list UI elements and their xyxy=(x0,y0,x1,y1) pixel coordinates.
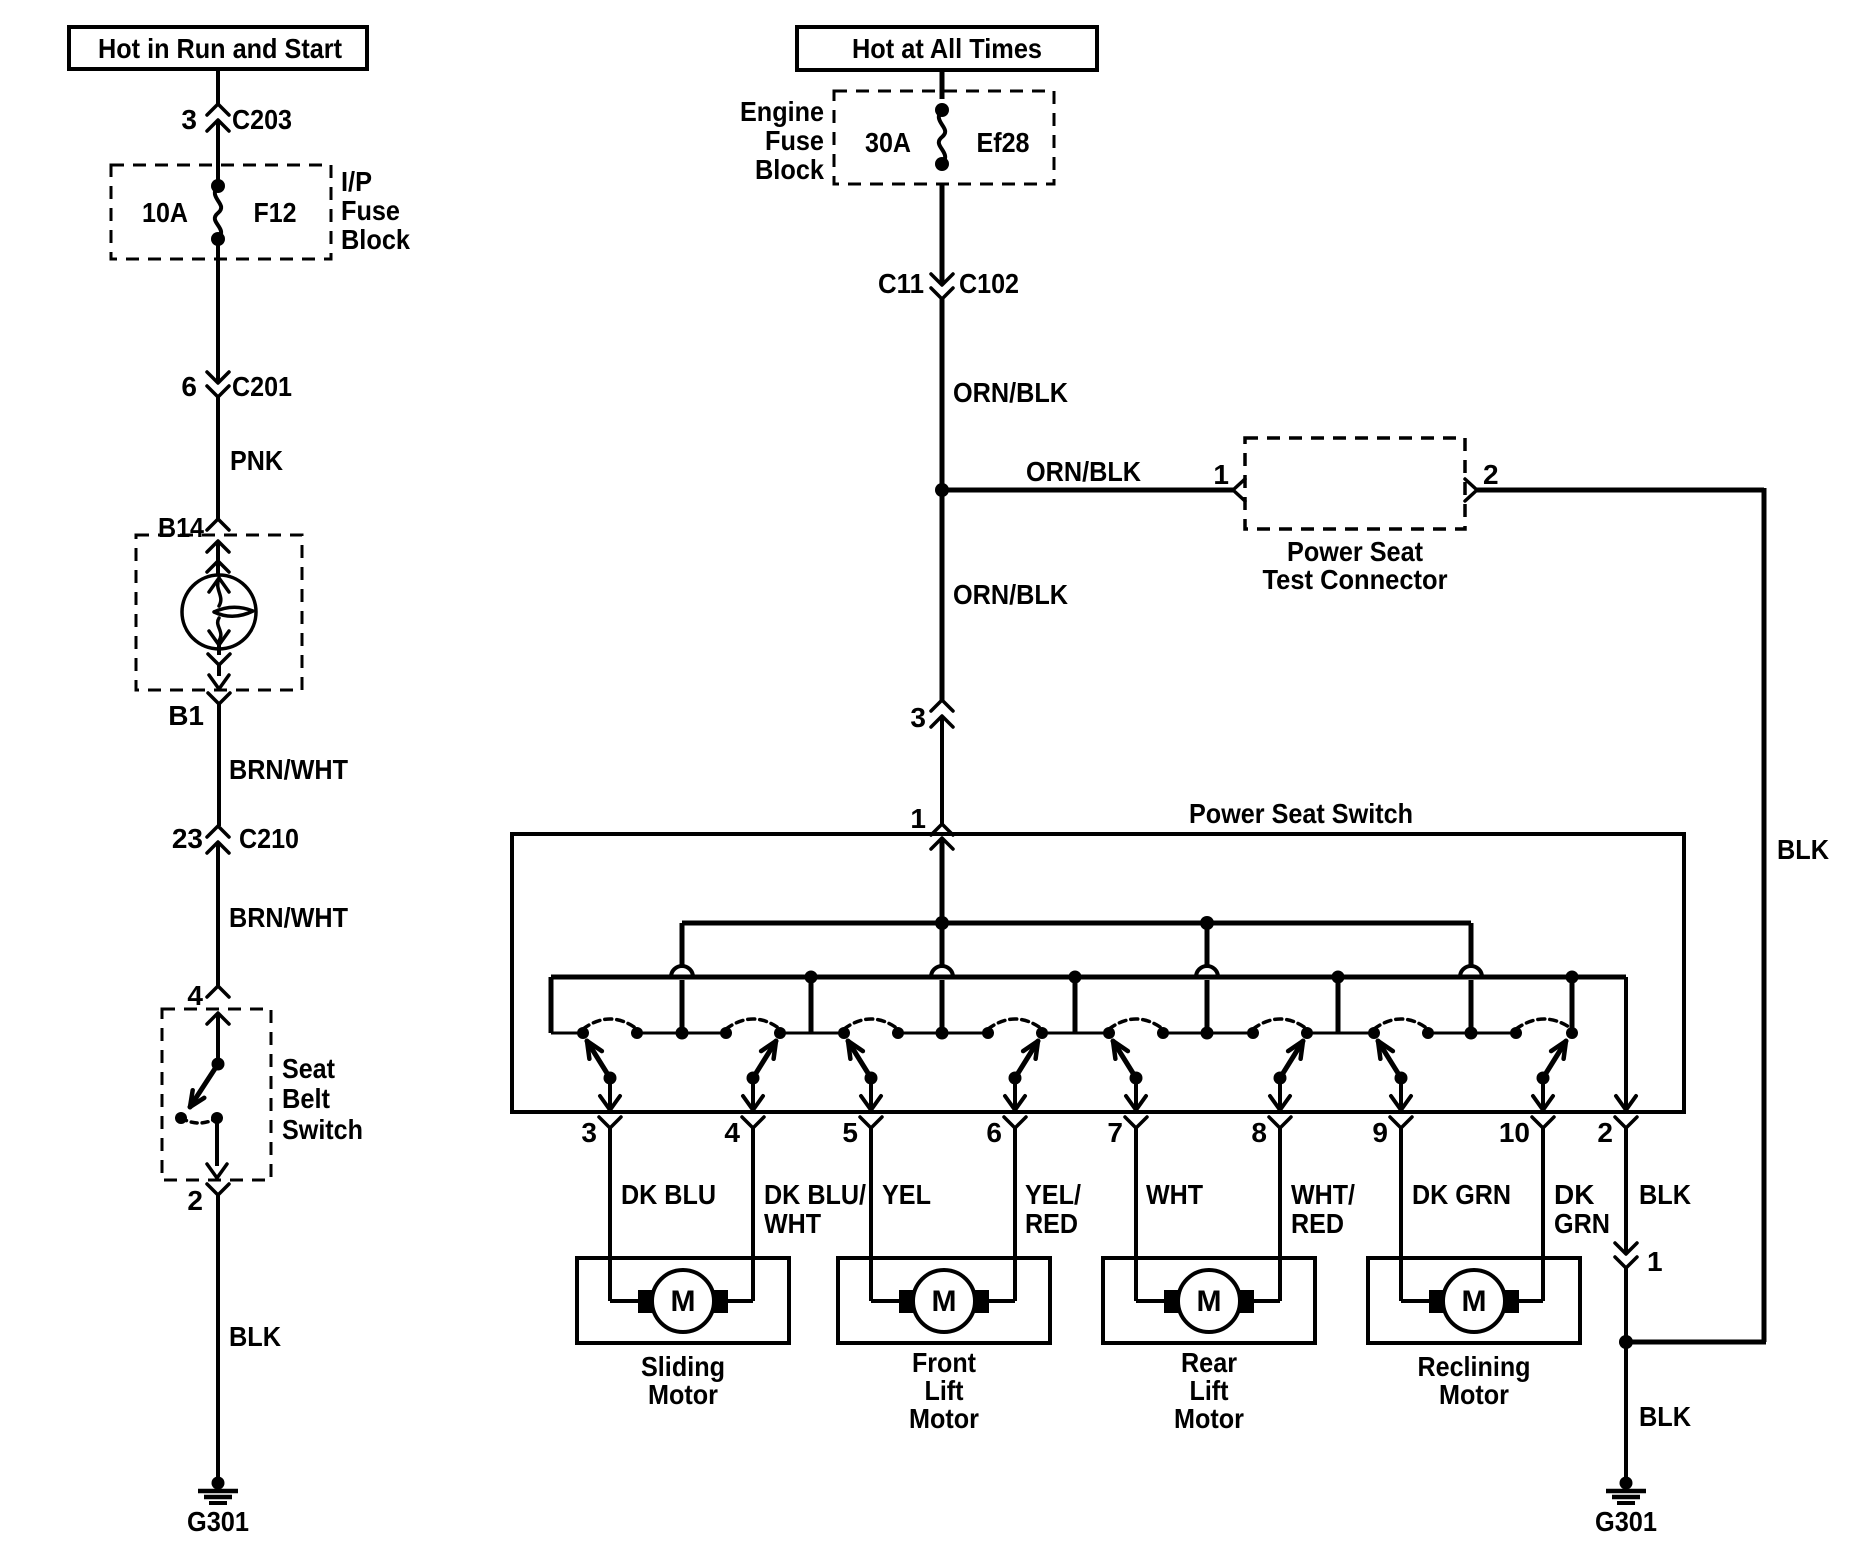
svg-text:WHT/: WHT/ xyxy=(1291,1179,1355,1210)
svg-text:M: M xyxy=(1197,1285,1222,1318)
svg-text:3: 3 xyxy=(581,1117,597,1148)
svg-text:PNK: PNK xyxy=(230,445,283,476)
svg-text:1: 1 xyxy=(1647,1246,1663,1277)
svg-text:3: 3 xyxy=(910,702,926,733)
svg-text:Seat: Seat xyxy=(282,1053,335,1084)
svg-text:Motor: Motor xyxy=(648,1379,718,1410)
svg-text:ORN/BLK: ORN/BLK xyxy=(953,579,1068,610)
svg-text:Lift: Lift xyxy=(925,1375,964,1406)
svg-text:C210: C210 xyxy=(239,823,299,854)
svg-text:Hot in Run and Start: Hot in Run and Start xyxy=(98,33,342,64)
svg-text:1: 1 xyxy=(910,803,926,834)
svg-text:GRN: GRN xyxy=(1554,1208,1610,1239)
svg-text:Power Seat: Power Seat xyxy=(1287,536,1423,567)
svg-text:Block: Block xyxy=(755,154,824,185)
svg-text:BLK: BLK xyxy=(229,1321,281,1352)
svg-text:Lift: Lift xyxy=(1190,1375,1229,1406)
svg-text:YEL/: YEL/ xyxy=(1025,1179,1081,1210)
svg-text:DK BLU/: DK BLU/ xyxy=(764,1179,866,1210)
svg-text:B14: B14 xyxy=(158,512,204,543)
svg-text:Motor: Motor xyxy=(1439,1379,1509,1410)
svg-text:C102: C102 xyxy=(959,268,1019,299)
svg-text:Rear: Rear xyxy=(1181,1347,1237,1378)
svg-text:4: 4 xyxy=(724,1117,740,1148)
svg-text:2: 2 xyxy=(1597,1117,1613,1148)
svg-text:M: M xyxy=(1462,1285,1487,1318)
svg-text:Power Seat Switch: Power Seat Switch xyxy=(1189,798,1413,829)
svg-text:BRN/WHT: BRN/WHT xyxy=(229,902,348,933)
svg-text:G301: G301 xyxy=(187,1506,249,1537)
svg-text:BRN/WHT: BRN/WHT xyxy=(229,754,348,785)
svg-text:23: 23 xyxy=(172,823,203,854)
svg-text:C11: C11 xyxy=(878,268,924,299)
svg-text:WHT: WHT xyxy=(764,1208,821,1239)
svg-text:Fuse: Fuse xyxy=(341,195,400,226)
svg-text:C203: C203 xyxy=(232,104,292,135)
svg-text:YEL: YEL xyxy=(882,1179,931,1210)
svg-text:10: 10 xyxy=(1499,1117,1530,1148)
svg-text:DK GRN: DK GRN xyxy=(1412,1179,1511,1210)
svg-text:5: 5 xyxy=(842,1117,858,1148)
svg-text:10A: 10A xyxy=(142,197,188,228)
svg-text:Belt: Belt xyxy=(282,1083,330,1114)
svg-text:RED: RED xyxy=(1025,1208,1078,1239)
svg-text:Motor: Motor xyxy=(909,1403,979,1434)
svg-text:C201: C201 xyxy=(232,371,292,402)
svg-text:M: M xyxy=(932,1285,957,1318)
svg-text:4: 4 xyxy=(187,980,203,1011)
svg-text:ORN/BLK: ORN/BLK xyxy=(953,377,1068,408)
svg-text:Motor: Motor xyxy=(1174,1403,1244,1434)
svg-text:DK: DK xyxy=(1554,1179,1594,1210)
svg-text:G301: G301 xyxy=(1595,1506,1657,1537)
svg-text:BLK: BLK xyxy=(1777,834,1829,865)
svg-text:Sliding: Sliding xyxy=(641,1351,725,1382)
svg-text:6: 6 xyxy=(986,1117,1002,1148)
svg-text:7: 7 xyxy=(1107,1117,1123,1148)
svg-text:ORN/BLK: ORN/BLK xyxy=(1026,456,1141,487)
svg-text:BLK: BLK xyxy=(1639,1401,1691,1432)
svg-text:Reclining: Reclining xyxy=(1418,1351,1531,1382)
svg-text:2: 2 xyxy=(1483,459,1499,490)
svg-text:6: 6 xyxy=(181,371,197,402)
svg-text:9: 9 xyxy=(1372,1117,1388,1148)
svg-text:DK BLU: DK BLU xyxy=(621,1179,716,1210)
svg-text:M: M xyxy=(671,1285,696,1318)
svg-text:BLK: BLK xyxy=(1639,1179,1691,1210)
svg-text:Ef28: Ef28 xyxy=(977,127,1030,158)
svg-text:3: 3 xyxy=(181,104,197,135)
svg-text:WHT: WHT xyxy=(1146,1179,1203,1210)
svg-text:Front: Front xyxy=(912,1347,976,1378)
svg-text:8: 8 xyxy=(1251,1117,1267,1148)
svg-text:Switch: Switch xyxy=(282,1114,363,1145)
svg-text:I/P: I/P xyxy=(341,166,372,197)
svg-text:RED: RED xyxy=(1291,1208,1344,1239)
svg-text:F12: F12 xyxy=(254,197,297,228)
svg-text:30A: 30A xyxy=(865,127,911,158)
svg-text:Engine: Engine xyxy=(740,96,824,127)
svg-text:1: 1 xyxy=(1213,459,1229,490)
svg-text:Block: Block xyxy=(341,224,410,255)
svg-text:2: 2 xyxy=(187,1185,203,1216)
svg-text:B1: B1 xyxy=(168,700,204,731)
svg-text:Fuse: Fuse xyxy=(765,125,824,156)
svg-text:Test Connector: Test Connector xyxy=(1263,564,1448,595)
svg-text:Hot at All Times: Hot at All Times xyxy=(852,33,1042,64)
